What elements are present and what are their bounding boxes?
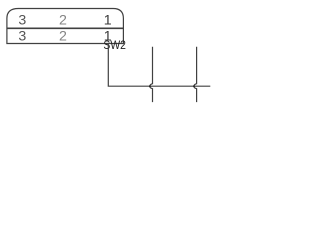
svg-text:3: 3 bbox=[18, 12, 26, 28]
svg-text:SW2: SW2 bbox=[103, 38, 126, 52]
vertical wire A with hop over horizontal net bbox=[150, 47, 153, 102]
switch SW2 body (two-row box with rounded top corners) bbox=[7, 9, 124, 44]
svg-text:1: 1 bbox=[104, 12, 112, 28]
svg-text:2: 2 bbox=[59, 12, 67, 28]
wire from SW2 pin down and right (net to the right edge) bbox=[108, 44, 210, 87]
svg-text:3: 3 bbox=[18, 29, 26, 45]
divider between gang rows bbox=[7, 27, 124, 29]
vertical wire B with hop over horizontal net bbox=[194, 47, 197, 102]
junction-hop apex dot on wire B bbox=[193, 85, 195, 87]
junction-hop apex dot on wire A bbox=[149, 85, 151, 87]
svg-text:2: 2 bbox=[59, 29, 67, 45]
